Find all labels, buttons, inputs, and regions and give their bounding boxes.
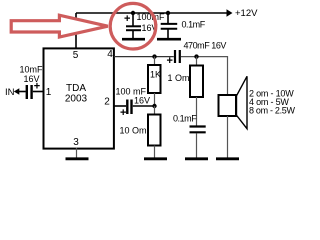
ground (C6) — [185, 157, 208, 160]
svg-text:5: 5 — [73, 50, 79, 61]
svg-text:TDA: TDA — [66, 83, 86, 94]
svg-text:470mF 16V: 470mF 16V — [184, 41, 227, 51]
svg-text:1K: 1K — [150, 70, 161, 80]
svg-text:1 Om: 1 Om — [168, 73, 190, 83]
wire pin4 feedback rail — [114, 56, 174, 58]
svg-text:10 Om: 10 Om — [120, 126, 147, 136]
capacitor C2 100mF 16V (highlighted) — [124, 12, 165, 39]
svg-text:+: + — [124, 13, 130, 25]
svg-text:16V: 16V — [134, 96, 150, 106]
ground (IC pin 3) — [66, 148, 89, 159]
capacitor C6 0.1mF (Zobel) — [173, 114, 206, 159]
svg-text:16V: 16V — [24, 74, 40, 84]
capacitor C1 10mF 16V (input) — [20, 65, 44, 100]
input terminal IN — [5, 87, 26, 98]
svg-text:1: 1 — [46, 87, 52, 98]
ground (R2) — [144, 157, 167, 160]
svg-text:10mF: 10mF — [20, 65, 44, 75]
speaker LS1 — [219, 76, 248, 158]
svg-text:3: 3 — [73, 137, 79, 148]
svg-text:2003: 2003 — [65, 94, 88, 105]
svg-text:2: 2 — [104, 97, 110, 108]
svg-text:+: + — [167, 55, 173, 67]
wire pin5 riser — [75, 13, 77, 48]
svg-text:+12V: +12V — [235, 8, 258, 19]
label speaker impedance/power — [249, 89, 296, 116]
node rail-C2 junction — [131, 11, 135, 15]
ground (C3) — [157, 38, 181, 41]
svg-text:8 om - 2.5W: 8 om - 2.5W — [249, 106, 296, 116]
svg-text:0.1mF: 0.1mF — [173, 114, 197, 124]
node rail-C3 junction — [166, 11, 170, 15]
resistor R2 10 Om — [120, 106, 161, 158]
resistor R1 1K — [148, 57, 161, 106]
node C4/R3 — [194, 54, 198, 58]
annotation arrow (red) — [11, 15, 108, 37]
annotation circle (red) — [110, 3, 156, 49]
wire +12V rail — [76, 12, 228, 14]
resistor R3 1 Om — [168, 57, 204, 126]
node pin2/R2 — [152, 104, 156, 108]
wire C4 to speaker corner — [181, 57, 228, 95]
svg-text:0.1mF: 0.1mF — [182, 20, 206, 30]
capacitor C3 0.1mF (supply bypass) — [161, 13, 206, 39]
svg-text:4: 4 — [107, 49, 113, 60]
IC U1 TDA2003 — [44, 48, 114, 148]
capacitor C5 100mF 16V (pin2) — [114, 87, 155, 120]
node pin4/R1 — [152, 54, 156, 58]
svg-text:IN: IN — [5, 87, 15, 98]
ground (C2) — [122, 38, 145, 41]
ground (speaker) — [216, 157, 239, 160]
capacitor C4 470mF 16V — [167, 41, 227, 68]
svg-text:+: + — [120, 107, 126, 119]
+12V supply arrowhead — [227, 9, 233, 16]
